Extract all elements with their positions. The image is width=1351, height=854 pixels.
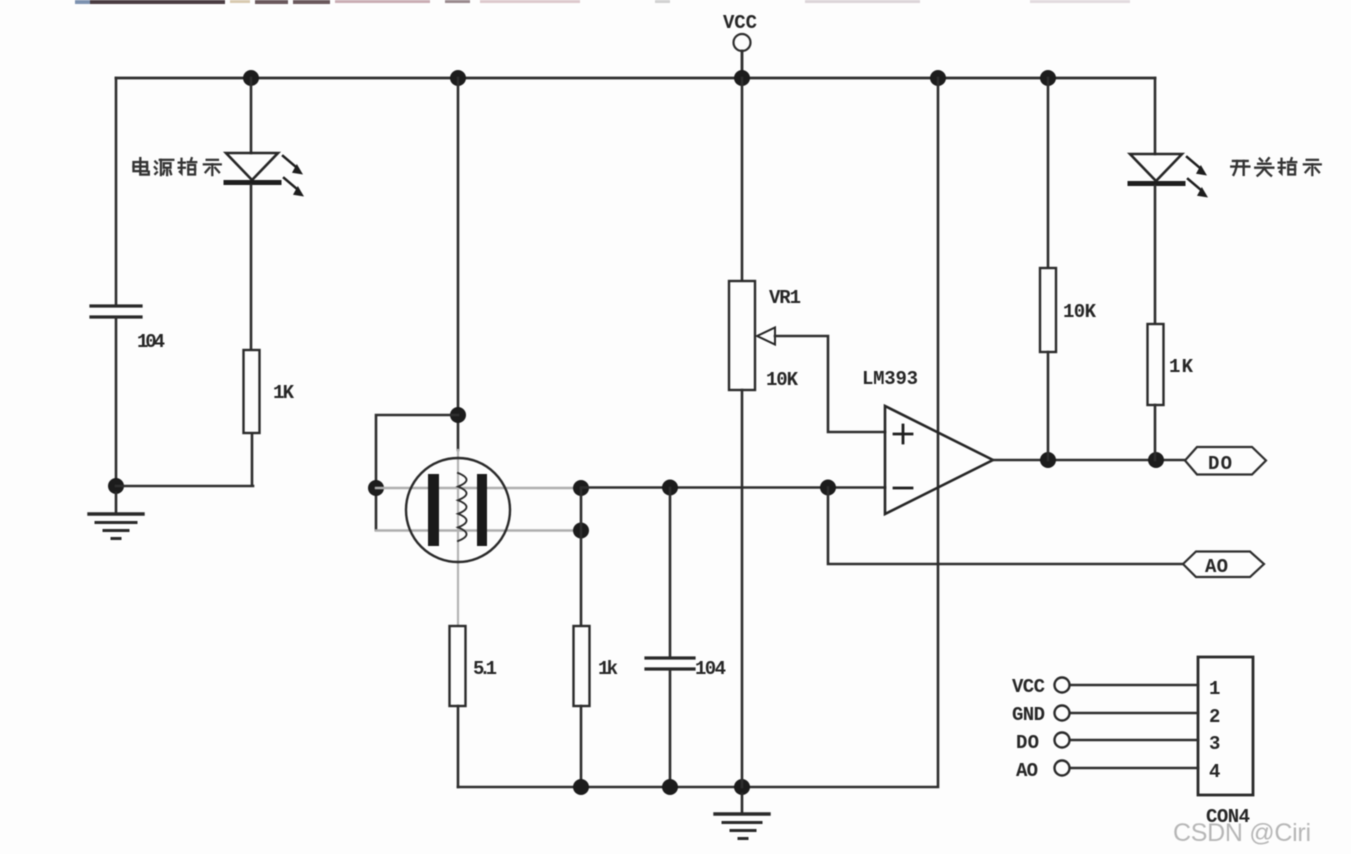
node rail-10K xyxy=(1040,70,1056,86)
wire pin2 GND xyxy=(1070,712,1198,715)
resistor R3 10K xyxy=(1040,268,1056,352)
svg-text:AO: AO xyxy=(1016,760,1038,782)
wire R2 to bottom rail xyxy=(580,706,583,787)
svg-text:3: 3 xyxy=(1209,733,1220,755)
svg-text:10K: 10K xyxy=(766,369,799,391)
VCC terminal circle xyxy=(734,34,751,51)
resistor R4 1K xyxy=(1148,324,1164,405)
wire inverting input line xyxy=(581,486,885,489)
svg-text:1: 1 xyxy=(1209,678,1220,700)
wire wiper to non-inverting input xyxy=(775,336,885,432)
potentiometer VR1 body xyxy=(729,281,755,390)
op-amp minus xyxy=(894,487,912,490)
sensor heater coil xyxy=(458,473,467,541)
resistor R1 1K xyxy=(244,350,260,433)
wire sensor electrode lower (gray) xyxy=(376,529,581,531)
svg-text:1k: 1k xyxy=(598,658,618,680)
wire left branch down to C1 xyxy=(115,78,118,305)
wire DO output line xyxy=(993,459,1184,462)
capacitor C2 104 xyxy=(646,658,694,669)
wire pin4 AO xyxy=(1070,767,1198,770)
svg-text:CSDN @Ciri: CSDN @Ciri xyxy=(1173,819,1311,847)
wire D1 to R1 xyxy=(250,185,253,350)
terminal circle VCC xyxy=(1055,678,1070,693)
node rail-sensor xyxy=(450,70,466,86)
sensor electrode plate left xyxy=(428,474,439,546)
wire sensor left loop xyxy=(376,415,458,530)
wire top rail xyxy=(116,77,1155,80)
node sensor right lower xyxy=(573,523,589,539)
svg-text:GND: GND xyxy=(1012,704,1045,726)
svg-text:5.1: 5.1 xyxy=(473,658,497,680)
capacitor C1 104 xyxy=(91,306,141,317)
node left ground junction xyxy=(108,478,124,494)
svg-text:2: 2 xyxy=(1209,706,1220,728)
svg-text:10K: 10K xyxy=(1063,301,1097,323)
svg-text:VCC: VCC xyxy=(1012,676,1045,698)
terminal circle GND xyxy=(1055,706,1070,721)
svg-text:1K: 1K xyxy=(1169,356,1194,378)
op-amp plus xyxy=(894,425,912,443)
svg-text:AO: AO xyxy=(1205,556,1228,578)
wire pin1 VCC xyxy=(1070,684,1198,687)
node sensor left xyxy=(368,480,384,496)
node sensor right upper xyxy=(573,480,589,496)
terminal circle DO xyxy=(1055,733,1070,748)
svg-text:104: 104 xyxy=(137,331,165,353)
wire C2 leads xyxy=(669,488,672,787)
node rail-D1 xyxy=(243,70,259,86)
wire rail to D1 xyxy=(250,78,253,153)
ground GND2 xyxy=(715,794,769,839)
sensor MQ body xyxy=(406,458,510,562)
node AO tap xyxy=(820,480,836,496)
svg-text:LM393: LM393 xyxy=(862,368,918,390)
label 电源指示 xyxy=(134,158,149,174)
op-amp U1 xyxy=(885,406,993,514)
wire sensor right tie xyxy=(580,488,583,626)
sensor electrode plate right xyxy=(477,474,487,546)
flag AO xyxy=(1183,552,1264,578)
terminal circle AO xyxy=(1055,761,1070,776)
wire sensor heater vertical (gray) xyxy=(457,450,459,626)
connector CON4 body xyxy=(1198,657,1253,795)
node DO-1K xyxy=(1148,452,1164,468)
node DO-10K xyxy=(1040,452,1056,468)
resistor R5 5.1 xyxy=(450,626,466,706)
node bottom-1k xyxy=(573,779,589,795)
svg-text:VCC: VCC xyxy=(723,12,757,34)
wire VCC stub xyxy=(741,51,744,77)
wire 1K bottom to ground node xyxy=(116,433,253,486)
flag DO xyxy=(1185,447,1266,475)
wire R4 to DO xyxy=(1154,405,1157,460)
svg-text:DO: DO xyxy=(1208,453,1232,475)
node bottom-C2 xyxy=(662,779,678,795)
resistor R2 1k xyxy=(574,626,590,706)
wire pin3 DO xyxy=(1070,739,1198,742)
wire VR1 bottom to ground rail xyxy=(741,390,744,787)
svg-text:1K: 1K xyxy=(273,382,295,404)
svg-text:VR1: VR1 xyxy=(769,287,801,309)
wire R5 to bottom rail xyxy=(457,706,460,787)
node rail-opamp xyxy=(930,70,946,86)
svg-text:4: 4 xyxy=(1209,761,1220,783)
wire C1 to ground node xyxy=(115,318,118,486)
wire rail to sensor node xyxy=(457,78,460,450)
wire rail corner to D2 xyxy=(1154,78,1157,154)
wire AO branch xyxy=(828,488,1183,565)
node bottom-ground xyxy=(734,779,750,795)
wire D2 to R4 xyxy=(1154,186,1157,324)
wire sensor electrode upper (gray) xyxy=(376,487,581,489)
svg-text:104: 104 xyxy=(695,658,726,680)
node sensor top xyxy=(450,407,466,423)
label 开关指示 xyxy=(1231,161,1249,175)
wire bottom rail xyxy=(458,78,938,787)
LED D2 (switch indicator) xyxy=(1130,154,1208,198)
wire rail to R3 xyxy=(1047,78,1050,268)
wire VCC rail to VR1 xyxy=(741,78,744,281)
node C2 top xyxy=(662,480,678,496)
wire R3 to DO xyxy=(1047,352,1050,460)
node rail-VCC xyxy=(734,70,750,86)
VR1 wiper arrow xyxy=(757,328,775,345)
ground GND1 xyxy=(89,493,143,539)
cropped header text strip xyxy=(75,0,1130,4)
svg-text:DO: DO xyxy=(1016,732,1039,754)
LED D1 (power indicator) xyxy=(226,153,304,197)
